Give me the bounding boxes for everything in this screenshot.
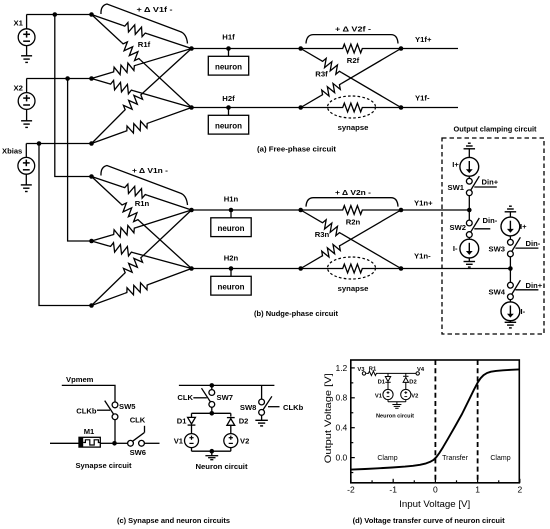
resistor R3n (H1n to Y1n-) <box>301 210 401 269</box>
node Y1n+ clamp <box>467 208 472 213</box>
svg-text:I+: I+ <box>520 222 527 231</box>
wire X2 row <box>27 78 92 80</box>
voltage source X2 <box>18 79 35 121</box>
ground (bottom chain2) <box>505 321 517 328</box>
wire D2 to V2 <box>230 425 232 433</box>
wire rail to SW8 <box>261 385 263 399</box>
wire X1 row <box>27 14 92 16</box>
resistor (X2 to H2f) <box>92 79 192 108</box>
wire rail to SW7 <box>211 385 213 389</box>
svg-text:Y1n+: Y1n+ <box>414 199 433 208</box>
svg-text:2: 2 <box>517 484 522 494</box>
ground (X2) <box>21 121 32 128</box>
switch SW8 <box>259 396 280 415</box>
node H2f neuron tap <box>226 105 231 110</box>
dashed line x=0 <box>434 360 436 483</box>
svg-text:Din+: Din+ <box>526 281 543 290</box>
node A3n (nudge row3 fanout) <box>89 303 94 308</box>
inset diode D1 <box>385 377 390 383</box>
ground (top of I+ chain2) <box>505 206 517 217</box>
svg-text:SW4: SW4 <box>489 287 506 296</box>
node A3 (free row3 fanout) <box>89 141 94 146</box>
svg-text:neuron: neuron <box>215 62 242 71</box>
svg-text:Y1f+: Y1f+ <box>415 35 432 44</box>
node D2n (Y1n-) <box>399 266 404 271</box>
node C2 (H2f/output) <box>298 105 303 110</box>
neuron U1 (H1f) <box>208 49 248 76</box>
wire Vpmem rail <box>62 385 115 402</box>
svg-text:Clamp: Clamp <box>377 455 397 462</box>
synapse ellipse (nudge) <box>328 257 376 279</box>
resistor R1n (nudge row1 to H1n) <box>92 177 192 211</box>
x tick labels <box>347 484 522 494</box>
resistor (nudge row2 to H1n) <box>92 210 192 241</box>
svg-text:R1n: R1n <box>135 199 150 208</box>
svg-text:CLK: CLK <box>130 416 146 425</box>
svg-text:M1: M1 <box>84 427 95 436</box>
svg-text:Output clamping circuit: Output clamping circuit <box>454 125 537 134</box>
ground (SW8) <box>255 415 268 426</box>
switch SW6 <box>128 426 145 446</box>
current source I+ (chain2) <box>501 217 520 236</box>
synapse ellipse (free) <box>328 96 376 118</box>
current source I+ (chain1) <box>460 157 479 176</box>
svg-text:1.2: 1.2 <box>335 363 347 373</box>
svg-text:-1: -1 <box>389 484 397 494</box>
ground (neuron) <box>205 451 218 460</box>
resistor (nudge row3 to H1n) <box>92 210 192 306</box>
svg-text:neuron: neuron <box>217 224 244 233</box>
inset terminal V3 <box>362 372 365 375</box>
inset terminal V4 <box>416 372 419 375</box>
svg-text:CLKb: CLKb <box>76 406 97 415</box>
svg-text:SW6: SW6 <box>130 448 146 457</box>
memristor M1 <box>79 437 100 447</box>
svg-text:CLKb: CLKb <box>283 403 304 412</box>
brace +dV2f <box>306 35 398 44</box>
current source I- (chain2) <box>501 302 520 321</box>
switch SW5 <box>97 401 118 420</box>
svg-text:X2: X2 <box>14 84 23 93</box>
ground (bottom chain1) <box>464 258 476 267</box>
switch SW2 <box>466 218 490 238</box>
svg-text:-2: -2 <box>347 484 355 494</box>
wire Y1n+ <box>401 209 469 211</box>
svg-text:R3n: R3n <box>315 230 330 239</box>
svg-text:I-: I- <box>453 244 458 253</box>
svg-text:SW5: SW5 <box>119 402 136 411</box>
node A1n (nudge row1 fanout) <box>89 174 94 179</box>
svg-text:CLK: CLK <box>177 393 193 402</box>
svg-text:R2n: R2n <box>346 218 361 227</box>
voltage source X1 <box>18 15 35 56</box>
svg-text:(d) Voltage transfer curve of: (d) Voltage transfer curve of neuron cir… <box>353 516 505 525</box>
svg-text:I+: I+ <box>452 160 459 169</box>
svg-text:V4: V4 <box>417 367 425 373</box>
node H2n neuron tap <box>229 266 234 271</box>
wire node to SW6 <box>115 442 128 444</box>
svg-text:SW3: SW3 <box>489 244 505 253</box>
axis ticks <box>351 368 520 483</box>
svg-text:Synapse circuit: Synapse circuit <box>76 461 132 470</box>
node H1n <box>189 208 194 213</box>
svg-text:0.8: 0.8 <box>335 393 347 403</box>
wire H1f row <box>192 48 301 50</box>
svg-text:Din+: Din+ <box>482 177 499 186</box>
dashed box (output clamping) <box>442 138 544 334</box>
ground (Xbias) <box>21 185 32 192</box>
voltage source V2 <box>224 434 238 448</box>
wire SW5 to synapse node <box>114 420 116 444</box>
wire H2n row <box>192 268 301 270</box>
resistor (nudge row1 to H2n) <box>92 177 192 269</box>
node C2n (H2n/output) <box>298 266 303 271</box>
node D1f (Y1f+) <box>399 46 404 51</box>
brace +dV2n <box>306 198 398 207</box>
svg-text:Neuron circuit: Neuron circuit <box>196 462 248 471</box>
node H1f <box>189 46 194 51</box>
wire bus X1 to nudge row1 <box>55 15 92 177</box>
resistor R2f <box>301 44 401 53</box>
svg-text:synapse: synapse <box>338 123 369 132</box>
svg-text:Y1n-: Y1n- <box>414 252 431 261</box>
svg-text:synapse: synapse <box>338 284 369 293</box>
svg-text:H1n: H1n <box>224 194 239 203</box>
wire D1 to V1 <box>191 425 193 434</box>
svg-text:(b) Nudge-phase circuit: (b) Nudge-phase circuit <box>254 309 338 318</box>
node D1n (Y1n+) <box>399 208 404 213</box>
node H1n neuron tap <box>229 208 234 213</box>
wire neuron bottom bar <box>192 450 231 452</box>
resistor (H2f to Y1f+) <box>301 49 401 108</box>
svg-text:Y1f-: Y1f- <box>415 94 430 103</box>
switch SW3 <box>508 235 539 256</box>
svg-text:R3f: R3f <box>315 70 328 79</box>
svg-text:V2: V2 <box>240 437 249 446</box>
svg-text:X1: X1 <box>14 18 24 27</box>
node A2 (free row2 fanout) <box>89 76 94 81</box>
svg-text:V3: V3 <box>357 367 365 373</box>
node neuron bottom <box>210 449 215 454</box>
svg-text:D1: D1 <box>378 380 386 386</box>
svg-text:+ Δ V2n -: + Δ V2n - <box>335 188 372 197</box>
wire M1 to node <box>100 442 115 444</box>
svg-text:Din-: Din- <box>483 216 498 225</box>
node neuron split <box>210 411 215 416</box>
svg-text:D2: D2 <box>239 416 249 425</box>
node Y1n- clamp <box>508 266 513 271</box>
plot frame <box>351 360 520 483</box>
inset diode D2 <box>403 376 408 382</box>
wire bus Xbias to nudge row3 <box>39 144 92 306</box>
wire V1 to bottom <box>191 448 193 452</box>
svg-text:+ Δ V1n -: + Δ V1n - <box>132 166 169 175</box>
svg-text:Input Voltage [V]: Input Voltage [V] <box>399 499 470 509</box>
svg-text:SW2: SW2 <box>450 223 466 232</box>
node D2f (Y1f-) <box>399 105 404 110</box>
node C1 (H1f/output) <box>298 46 303 51</box>
node H2f <box>189 105 194 110</box>
resistor (nudge row2 to H2n) <box>92 241 192 269</box>
svg-text:D2: D2 <box>409 380 416 386</box>
node Xbias-bus junction <box>37 141 42 146</box>
svg-text:V1: V1 <box>174 437 184 446</box>
svg-text:0.0: 0.0 <box>335 453 347 463</box>
voltage source Xbias <box>18 144 35 185</box>
svg-text:R1: R1 <box>369 366 377 372</box>
wire V2 to bottom <box>230 448 232 452</box>
inset wire D2-V2 <box>405 382 407 389</box>
svg-text:H2n: H2n <box>224 254 239 263</box>
wire bus X2 to nudge row2 <box>68 79 92 242</box>
resistor (Xbias to H1f) <box>92 49 192 144</box>
switch SW4 <box>508 280 539 299</box>
wire Xbias row <box>26 143 91 145</box>
wire Y1f- <box>401 107 458 109</box>
svg-text:neuron: neuron <box>215 121 242 130</box>
inset resistor R1 <box>366 371 378 375</box>
wire node to SW4 <box>509 269 511 283</box>
svg-text:0: 0 <box>433 484 438 494</box>
wire split bar <box>192 412 231 414</box>
node neuron rail tap <box>210 383 215 388</box>
svg-text:Transfer: Transfer <box>442 455 468 462</box>
node A2n (nudge row2 fanout) <box>89 239 94 244</box>
switch SW7 <box>193 388 214 407</box>
diode D2 <box>227 418 235 426</box>
wire SW2 to I- <box>468 238 470 240</box>
svg-text:Neuron circuit: Neuron circuit <box>376 413 414 419</box>
svg-text:Vpmem: Vpmem <box>66 375 94 384</box>
wire synapse row left <box>50 442 79 444</box>
svg-text:H1f: H1f <box>222 33 235 42</box>
svg-text:+ Δ V1f -: + Δ V1f - <box>137 5 174 14</box>
resistor R3f (H1f to Y1f-) <box>301 49 401 108</box>
svg-text:V2: V2 <box>411 393 418 399</box>
svg-text:Clamp: Clamp <box>490 455 510 462</box>
wire node to SW2 <box>468 210 470 220</box>
resistor R2n <box>301 206 401 215</box>
svg-text:V1: V1 <box>375 393 383 399</box>
resistor (Xbias to H2f) <box>92 108 192 144</box>
ground (X1) <box>21 56 32 63</box>
svg-text:H2f: H2f <box>222 94 235 103</box>
dashed line x=1 <box>477 360 479 483</box>
svg-text:SW1: SW1 <box>448 183 465 192</box>
node C1n (H1n/output) <box>298 208 303 213</box>
inset wire top <box>379 372 416 374</box>
brace +dV1f <box>101 4 188 44</box>
inset source V2 <box>401 389 411 399</box>
svg-text:SW7: SW7 <box>217 393 233 402</box>
node A1 (free row1 fanout) <box>89 12 94 17</box>
resistor R1f (X1 to H1f) <box>92 15 192 49</box>
voltage source V1 <box>185 434 199 448</box>
wire H1n row <box>192 209 301 211</box>
wire SW7 to split node <box>211 407 213 413</box>
wire SW4 to I- <box>509 300 511 302</box>
y tick labels <box>335 363 347 463</box>
transfer curve <box>352 369 520 469</box>
inset source V1 <box>383 389 393 399</box>
resistor synapse (free) <box>301 103 401 112</box>
neuron U4 (H2n) <box>211 269 251 296</box>
resistor synapse (nudge) <box>301 264 401 273</box>
svg-text:SW8: SW8 <box>240 403 256 412</box>
svg-text:Din-: Din- <box>526 239 541 248</box>
wire Y1f+ <box>401 48 458 50</box>
wire SW3 to node <box>509 257 511 269</box>
svg-text:1: 1 <box>475 484 480 494</box>
inset wire bottom <box>388 400 406 402</box>
wire to D2 <box>230 413 232 416</box>
inset wire D1-V1 <box>387 382 389 389</box>
wire neuron top rail <box>179 384 275 386</box>
node H2n <box>189 266 194 271</box>
svg-text:(a) Free-phase circuit: (a) Free-phase circuit <box>257 145 336 154</box>
svg-text:(c) Synapse and neuron circuit: (c) Synapse and neuron circuits <box>117 516 230 525</box>
svg-text:neuron: neuron <box>217 282 244 291</box>
brace +dV1n <box>101 166 188 206</box>
svg-text:Output Voltage [V]: Output Voltage [V] <box>323 373 333 463</box>
svg-text:0.4: 0.4 <box>335 423 347 433</box>
neuron U2 (H2f) <box>208 108 248 135</box>
wire to D1 <box>191 413 193 417</box>
current source I- (chain1) <box>460 239 479 258</box>
resistor (H2n to Y1n+) <box>301 210 401 269</box>
svg-text:D1: D1 <box>177 417 187 426</box>
wire Y1n- <box>401 268 510 270</box>
svg-text:+ Δ V2f -: + Δ V2f - <box>335 25 372 34</box>
resistor (X2 to H1f) <box>92 49 192 79</box>
wire SW6 right <box>144 442 159 444</box>
svg-text:Xbias: Xbias <box>2 146 22 155</box>
wire H2f row <box>192 107 301 109</box>
inset ground <box>392 402 401 409</box>
node H1f neuron tap <box>226 46 231 51</box>
node synapse <box>112 441 117 446</box>
diode D1 <box>188 417 196 425</box>
ground (top of I+ chain1) <box>464 143 476 157</box>
svg-text:I-: I- <box>521 307 526 316</box>
neuron U3 (H1n) <box>211 210 251 237</box>
resistor (X1 to H2f) <box>92 15 192 108</box>
switch SW1 <box>466 176 496 196</box>
node X2-bus junction <box>65 76 70 81</box>
svg-text:R1f: R1f <box>138 40 151 49</box>
svg-text:R2f: R2f <box>347 56 360 65</box>
resistor (nudge row3 to H2n) <box>92 269 192 306</box>
inset wire to D2 <box>405 373 407 376</box>
inset wire to D1 <box>387 373 389 376</box>
wire SW1 to node <box>468 196 470 210</box>
node X1-bus junction <box>53 12 58 17</box>
